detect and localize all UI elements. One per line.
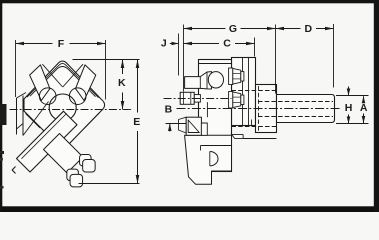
svg-text:A: A [360,102,368,114]
svg-text:C: C [223,37,231,49]
svg-text:E: E [133,116,140,128]
svg-text:J: J [161,37,167,49]
svg-text:D: D [305,23,313,35]
svg-text:G: G [229,23,237,35]
svg-text:F: F [58,38,65,50]
svg-text:H: H [345,102,353,114]
svg-text:B: B [165,103,173,115]
svg-text:K: K [118,77,126,89]
